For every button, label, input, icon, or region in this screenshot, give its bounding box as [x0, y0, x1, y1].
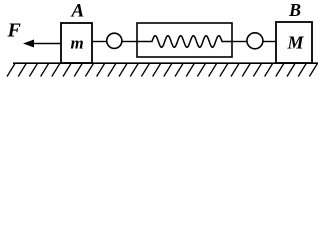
svg-text:A: A	[71, 1, 85, 22]
svg-text:B: B	[288, 0, 301, 20]
svg-text:F: F	[7, 20, 22, 42]
svg-text:M: M	[287, 33, 305, 53]
svg-text:m: m	[71, 34, 84, 53]
